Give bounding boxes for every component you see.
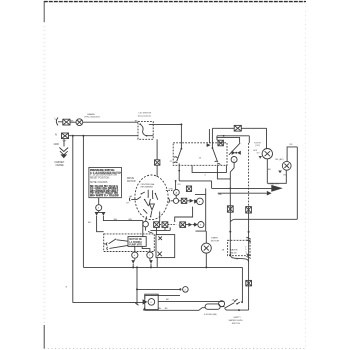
main loop wire y128.3 — [212, 127, 266, 129]
timer switch 1 contacts — [174, 157, 177, 163]
svg-text:OFF: OFF — [253, 150, 258, 152]
svg-text:WH= WHITE YL= YELLOW: WH= WHITE YL= YELLOW — [90, 195, 119, 197]
wire left pin to pump box — [97, 219, 104, 232]
border left faint dotted — [43, 22, 45, 325]
motor drop x159.7 — [159, 212, 161, 222]
water pump dashed box — [104, 234, 155, 252]
svg-text:GND: GND — [54, 143, 60, 146]
level switch contacts — [234, 300, 236, 302]
node dot timer motor bus — [205, 266, 207, 268]
node dot x248.6 — [248, 231, 250, 233]
link A to start circle — [175, 195, 177, 198]
node junction at x83.4 — [82, 135, 84, 137]
solenoid coil tick upper — [246, 237, 250, 242]
lid switch blade — [140, 124, 146, 136]
pump links to plugs — [135, 246, 150, 252]
motor right dashes — [166, 190, 173, 192]
valve feed wire down — [230, 163, 248, 263]
X box row2 a — [154, 222, 160, 228]
wire box6 out y301.6 — [158, 301, 224, 303]
wire lid switch out y124.4 — [153, 123, 181, 125]
timer sw1 drop to wire — [178, 163, 180, 181]
wire brake to lid switch (hot) — [83, 121, 138, 123]
inner rect right drop — [248, 136, 250, 143]
terminal X box on timer top — [218, 140, 224, 146]
ground chassis symbol — [59, 148, 68, 152]
wire y193.2 second feed — [218, 192, 267, 194]
terminal N box — [62, 133, 69, 139]
svg-text:FRAME: FRAME — [56, 164, 65, 167]
node dot level out — [238, 309, 240, 311]
svg-text:YEL (BK): YEL (BK) — [275, 159, 284, 161]
lid lock box — [145, 294, 158, 309]
selector arrow left — [232, 151, 236, 155]
node dots on valve feed — [229, 188, 231, 190]
X box on wire y188.4 — [186, 186, 191, 192]
row1 wire segments — [179, 200, 197, 202]
wash solenoid down x267.3 — [266, 159, 268, 183]
level switch out — [225, 309, 249, 310]
timer sw2 pivot dot — [212, 147, 214, 149]
node dot y135.8 — [223, 135, 225, 137]
circled plug 7 — [147, 252, 153, 258]
ground stub from N — [63, 139, 65, 147]
wire drop x181.4 to timer — [180, 124, 182, 148]
rinse solenoid circle — [282, 161, 291, 170]
svg-text:(two position): (two position) — [138, 114, 151, 117]
svg-text:RD: RD — [283, 174, 287, 176]
bracket top stub — [205, 188, 207, 194]
node dots on bus — [132, 266, 134, 268]
arrow up at box6 bottom — [143, 307, 146, 310]
lid switch contact dots — [139, 123, 141, 125]
solenoid coil tick lower — [246, 254, 250, 259]
wire right drop x242.4 — [241, 267, 243, 303]
svg-text:WH: WH — [63, 141, 67, 143]
border top — [44, 1, 306, 3]
rinse solenoid top hook — [287, 147, 297, 162]
lid lock circle 6 — [148, 299, 155, 306]
wire lid switch down x157.1 — [156, 139, 158, 160]
svg-text:4-FUSE (6A): 4-FUSE (6A) — [204, 313, 217, 316]
plug pins below 7 — [149, 260, 153, 264]
circled plug 2 — [183, 287, 189, 293]
svg-text:10 BU: 10 BU — [178, 225, 184, 227]
arrow row1 — [190, 199, 194, 203]
capacitor rect — [156, 235, 175, 258]
svg-text:WATER LEVEL: WATER LEVEL — [229, 319, 244, 322]
drop x242.4 meets switch — [241, 301, 242, 303]
svg-text:PUMP MTR: PUMP MTR — [129, 244, 142, 247]
connector bracket outline — [195, 194, 206, 231]
wire fuse to brake — [70, 121, 76, 123]
wire plug to fuse — [58, 121, 63, 123]
brake switch circle — [76, 119, 83, 126]
drive motor dashed ellipse — [135, 175, 168, 220]
border left upper dark — [43, 2, 45, 22]
wire y310.3 to fuse — [145, 308, 206, 311]
wire hot drop x83.4 — [82, 136, 84, 268]
loop drop to wash solenoid — [266, 128, 268, 148]
level switch pivot circle — [219, 301, 225, 307]
wire x137 drop — [136, 267, 138, 304]
circled terminal A — [174, 190, 180, 196]
X box row1 — [181, 198, 187, 203]
pump switch links — [109, 240, 128, 249]
X box upper on x248.6 — [246, 207, 252, 213]
node junction at x72.8 — [72, 135, 74, 137]
svg-text:CABINET: CABINET — [54, 161, 65, 164]
svg-text:4 RD: 4 RD — [168, 189, 173, 191]
wire neutral N to lid switch — [69, 135, 139, 137]
svg-text:(P/N 21001657): (P/N 21001657) — [84, 117, 100, 119]
connector pin lower — [194, 222, 197, 226]
bottom U to rinse solenoid — [267, 170, 286, 183]
connector circle 6 — [198, 222, 204, 228]
wire y188.4 to 4way arrow — [212, 187, 272, 189]
ground triangle wash — [259, 156, 263, 159]
node dot x137 bus — [136, 266, 138, 268]
node dot on wire y180.9 — [175, 180, 177, 182]
motor internal contact dots 2 — [144, 199, 145, 200]
svg-text:NOTE: COLORS: NOTE: COLORS — [90, 182, 108, 184]
wire neutral drop left x72.8 — [72, 136, 74, 303]
small start circle on row1 — [173, 198, 178, 203]
wire x248.6 solid lower — [248, 206, 250, 310]
svg-text:RD: RD — [178, 184, 182, 186]
pressure switch legend box — [89, 167, 122, 197]
connector circle 3 — [197, 198, 204, 205]
motor left contact stub 4A — [131, 197, 141, 200]
4way valve arrowhead — [271, 185, 283, 192]
timer switch 1 blade — [177, 149, 182, 162]
legend feed to circled 3 — [98, 198, 100, 205]
svg-text:MOTOR: MOTOR — [211, 240, 220, 242]
water valve dashed box — [228, 240, 250, 255]
svg-text:WH: WH — [114, 219, 118, 221]
fuse rounded box — [205, 304, 220, 309]
selector arrow right — [237, 151, 241, 155]
dashed stub left of box6 — [130, 301, 137, 303]
svg-text:24A: 24A — [218, 193, 222, 196]
connector X box on x157.1 — [155, 160, 160, 165]
svg-text:SWITCH: SWITCH — [232, 323, 241, 325]
timer sw1 pivot dot — [181, 148, 183, 150]
svg-text:F: 16 LB DISPENSER SW.: F: 16 LB DISPENSER SW. — [90, 175, 118, 177]
timer sw2 lower drop to corner — [217, 165, 230, 179]
stub into X box — [216, 136, 218, 140]
wire y295.4 — [145, 295, 180, 298]
timer switch 2 blade — [212, 148, 217, 162]
timer switch 2 feed drop x212.4 — [211, 128, 213, 148]
border left lower dark — [43, 325, 45, 349]
motor internal contact dots — [148, 196, 149, 197]
svg-text:LID SWITCH: LID SWITCH — [139, 113, 152, 115]
motor internal winding strokes — [141, 190, 152, 198]
svg-text:WH: WH — [128, 219, 132, 221]
motor internal triangle — [150, 204, 155, 210]
svg-text:VALVE: VALVE — [230, 251, 237, 254]
svg-text:BU: BU — [268, 169, 271, 171]
node dot row1 — [195, 200, 197, 202]
wire bottom bus y267.4 — [83, 266, 242, 268]
svg-text:RD: RD — [289, 144, 293, 146]
timer inner rect top y135.8 — [217, 135, 249, 137]
X box row2 b — [162, 222, 168, 228]
dashed right edge x248.6 — [248, 143, 250, 206]
motor winding link — [146, 216, 153, 233]
capacitor link to row2 — [155, 227, 157, 234]
timer motor circle — [201, 243, 211, 253]
wire y289.4 — [137, 288, 180, 290]
svg-text:WATER: WATER — [230, 248, 238, 251]
circled 4 timer terminal — [231, 157, 237, 163]
svg-text:DRIVE: DRIVE — [127, 178, 134, 180]
fuse out wire — [220, 306, 224, 308]
timer switch dashed box — [173, 143, 227, 166]
svg-text:RESET POSITION: RESET POSITION — [90, 178, 110, 180]
lid switch LS1 dashed box — [138, 122, 153, 140]
svg-text:BRAKE: BRAKE — [87, 113, 95, 116]
circled plug 3 — [96, 205, 102, 211]
motor internal blades — [143, 194, 158, 217]
plug pins under circled 3 — [95, 211, 105, 219]
circled plug 4 — [132, 252, 138, 258]
fuse F1 box — [63, 119, 70, 125]
wire neutral bottom run y302.6 — [73, 302, 143, 304]
svg-text:WH: WH — [158, 308, 162, 310]
right column wire x297.3 — [296, 147, 298, 219]
timer motor feed — [205, 231, 207, 243]
tick at x137 bottom — [135, 303, 138, 305]
border bottom dotted — [44, 348, 306, 350]
svg-text:TIMER: TIMER — [211, 238, 218, 240]
X box row2 c — [180, 222, 186, 228]
pump motor box — [128, 237, 146, 247]
timer sw2 aux stub x209.4 — [208, 129, 210, 143]
capacitor drop to bus — [156, 258, 158, 268]
timer switch 2 contacts — [215, 161, 221, 164]
inner rect second line — [216, 137, 239, 143]
svg-text:N: N — [55, 132, 57, 136]
wire x157.1 to motor — [156, 165, 158, 177]
wire under row2 boxes — [151, 227, 171, 230]
level switch blade — [224, 303, 234, 309]
jog to valve feed — [230, 219, 233, 221]
node at 181.4,124.4 — [180, 123, 182, 125]
X box lower on x248.6 — [246, 280, 252, 286]
svg-text:BU: BU — [88, 222, 91, 224]
wire right pin to pump — [103, 219, 142, 237]
timer motor to bus — [205, 253, 207, 267]
node dot on sw1 drop — [178, 170, 180, 172]
second arrowhead — [267, 191, 272, 196]
svg-text:MOTOR: MOTOR — [127, 181, 136, 183]
lid switch inner terminal — [147, 124, 154, 135]
connector pin upper — [194, 199, 197, 203]
node dot row2 — [194, 224, 196, 226]
plug pins below 4 — [131, 260, 135, 264]
motor right contact — [169, 198, 174, 203]
capacitor X marks — [157, 236, 162, 256]
wash solenoid circle — [262, 149, 272, 159]
arrow row2 — [188, 223, 192, 227]
svg-text:MECHANISM: MECHANISM — [141, 186, 154, 189]
L wire between rows — [175, 207, 193, 222]
row2 wire segments — [159, 224, 176, 226]
wire y180.9 run — [179, 180, 211, 182]
border right faint dotted — [305, 2, 307, 349]
node dots y289.4 — [136, 288, 138, 290]
drop to terminal A — [175, 181, 177, 190]
ground triangle rinse — [278, 171, 282, 174]
svg-text:EMPTY: EMPTY — [234, 317, 242, 319]
timer selector blade upper — [229, 143, 240, 155]
node dot selector — [235, 152, 237, 154]
svg-text:(GY): (GY) — [255, 145, 260, 147]
wire step down x211.6 — [211, 181, 213, 189]
X box on valve feed — [227, 206, 233, 212]
X box on loop y128.3 — [234, 125, 241, 131]
timer sw2 aux contact arrow — [207, 143, 211, 147]
pump switch blade — [109, 239, 117, 244]
motor winding circle — [143, 221, 149, 227]
svg-text:4 WAY VLV: 4 WAY VLV — [268, 183, 279, 186]
pump switch contacts — [104, 242, 108, 250]
lid lock arrow — [143, 299, 148, 304]
timer U wire — [192, 165, 226, 172]
wire y219.3 return — [233, 218, 297, 220]
plug prong L — [56, 118, 58, 126]
